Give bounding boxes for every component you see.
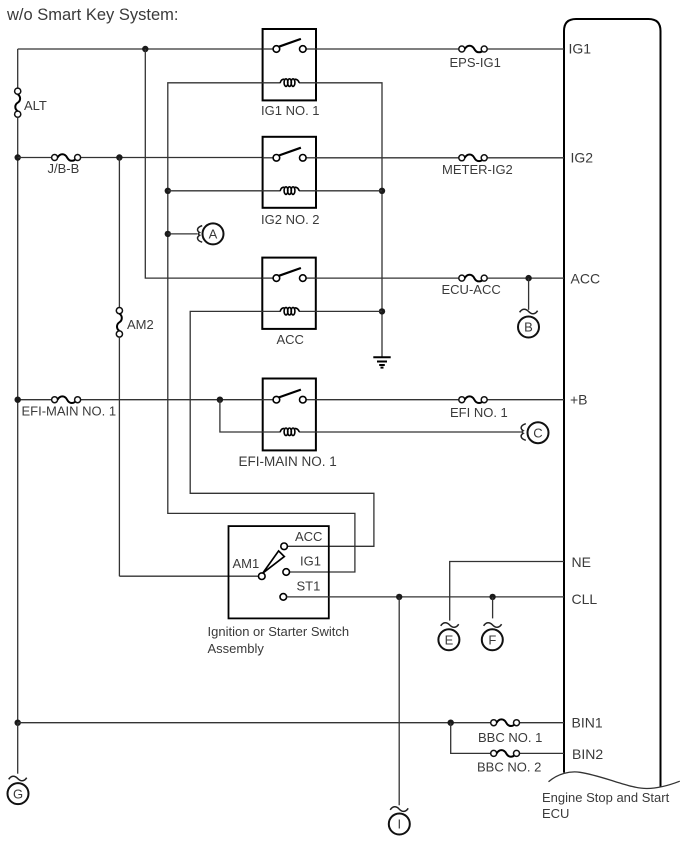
wire B stub: [528, 278, 530, 310]
svg-text:IG1: IG1: [300, 554, 321, 569]
fuse EFI-MAIN NO. 1: [52, 396, 81, 403]
svg-text:METER-IG2: METER-IG2: [442, 162, 513, 177]
connector E: [438, 623, 459, 651]
svg-text:EFI-MAIN NO. 1: EFI-MAIN NO. 1: [239, 454, 337, 469]
ground: [373, 357, 390, 367]
wire EFI coil branch: [220, 400, 263, 432]
fuse BBC NO. 2: [491, 750, 520, 757]
svg-text:BIN1: BIN1: [572, 714, 603, 730]
svg-text:F: F: [488, 633, 496, 648]
svg-text:Ignition or Starter Switch: Ignition or Starter Switch: [208, 624, 350, 639]
svg-text:C: C: [533, 425, 542, 440]
svg-text:IG1 NO. 1: IG1 NO. 1: [261, 103, 320, 118]
ignition switch assembly box: [229, 526, 329, 618]
wire I rail: [398, 597, 400, 805]
fuse METER-IG2: [459, 155, 487, 162]
wire CLL row from ST1: [287, 596, 564, 598]
svg-text:A: A: [209, 227, 218, 242]
wire left rail upper: [17, 49, 19, 88]
wire G stub: [17, 723, 19, 774]
node B branch: [525, 275, 531, 281]
svg-text:Engine Stop and Start: Engine Stop and Start: [542, 790, 670, 805]
wire J/B-B row: [18, 157, 52, 159]
svg-text:IG1: IG1: [569, 41, 592, 57]
connector G: [8, 776, 29, 804]
svg-text:ALT: ALT: [24, 98, 47, 113]
fuse AM2: [116, 308, 122, 338]
connector B: [518, 309, 539, 337]
svg-text:w/o Smart Key System:: w/o Smart Key System:: [6, 6, 178, 24]
fuse EPS-IG1: [459, 46, 487, 53]
node G row left: [15, 720, 21, 726]
svg-text:EPS-IG1: EPS-IG1: [450, 55, 501, 70]
node BIN2 branch: [448, 720, 454, 726]
wire IG2 coil right stub: [316, 190, 382, 192]
connector A: [198, 223, 224, 244]
wire IG2 row right with fuse METER-IG2: [316, 157, 459, 159]
node A branch: [165, 231, 171, 237]
wire ACC coil left rail: [190, 311, 374, 546]
svg-text:NE: NE: [572, 554, 591, 570]
wire +B row right with fuse EFI NO. 1: [316, 399, 459, 401]
svg-text:ECU: ECU: [542, 806, 569, 821]
node EFI coil branch: [217, 397, 223, 403]
connector I: [389, 807, 410, 835]
wire F stub: [492, 597, 494, 619]
wire BIN2 branch: [451, 723, 491, 754]
svg-text:ACC: ACC: [277, 332, 304, 347]
wire ACC feed rail: [145, 49, 262, 278]
wire ACC row right with fuse ECU-ACC: [316, 277, 459, 279]
node AM2 branch: [116, 154, 122, 160]
relay IG1 NO. 1: [263, 29, 316, 100]
svg-text:CLL: CLL: [572, 591, 598, 607]
wire A stub: [168, 233, 198, 235]
svg-text:G: G: [13, 786, 23, 801]
relay ACC: [262, 258, 316, 329]
svg-text:BBC NO. 1: BBC NO. 1: [478, 730, 542, 745]
wire AM2 rail upper: [118, 158, 120, 308]
wire EFI-MAIN row: [18, 399, 52, 401]
node ACC coil junction right: [379, 308, 385, 314]
svg-text:ST1: ST1: [297, 579, 321, 594]
wire top rail IG1 row left: [18, 48, 263, 50]
wire ACC coil right stub: [316, 310, 382, 312]
svg-text:BIN2: BIN2: [572, 746, 603, 762]
wire left rail mid: [17, 117, 19, 722]
svg-text:AM2: AM2: [127, 317, 154, 332]
svg-text:BBC NO. 2: BBC NO. 2: [477, 760, 541, 775]
fuse BBC NO. 1: [491, 719, 520, 726]
ECU box Engine Stop and Start ECU: [549, 19, 680, 789]
wire AM2 rail lower to AM1: [118, 337, 120, 576]
svg-text:IG2: IG2: [571, 150, 594, 166]
fusible link ALT: [15, 88, 21, 117]
svg-text:I: I: [397, 817, 401, 832]
wire IG1 row right with fuse EPS-IG1: [316, 48, 459, 50]
connector F: [482, 623, 503, 651]
connector C: [521, 422, 548, 443]
fuse ECU-ACC: [459, 275, 487, 282]
svg-text:EFI NO. 1: EFI NO. 1: [450, 405, 508, 420]
svg-text:AM1: AM1: [233, 556, 260, 571]
svg-text:IG2 NO. 2: IG2 NO. 2: [261, 212, 320, 227]
relay IG2 NO. 2: [263, 137, 316, 208]
wire EFI coil right to connector C: [316, 431, 521, 433]
wire IG2 coil left stub: [168, 190, 263, 192]
svg-text:EFI-MAIN NO. 1: EFI-MAIN NO. 1: [22, 404, 117, 419]
wire IG1 coil left rail: [168, 83, 355, 572]
node IG2 coil junction left: [165, 188, 171, 194]
node J/B-B left: [15, 154, 21, 160]
svg-text:J/B-B: J/B-B: [48, 161, 80, 176]
svg-text:ACC: ACC: [295, 529, 322, 544]
svg-text:ACC: ACC: [571, 271, 601, 287]
node F branch: [489, 594, 495, 600]
svg-text:+B: +B: [570, 392, 588, 408]
wire BIN1 row: [18, 722, 491, 724]
fuse J/B-B: [52, 154, 81, 161]
node IG2 coil junction right: [379, 188, 385, 194]
node I branch: [396, 594, 402, 600]
fuse EFI NO. 1: [459, 396, 487, 403]
wire IG1 coil right to ground rail: [316, 83, 382, 357]
svg-text:B: B: [524, 320, 533, 335]
wire NE row: [450, 562, 564, 621]
svg-text:ECU-ACC: ECU-ACC: [442, 282, 501, 297]
node EFI row left: [15, 397, 21, 403]
wire AM1 feed: [119, 575, 258, 577]
relay EFI-MAIN NO. 1: [263, 379, 316, 451]
node junction top rail: [142, 46, 148, 52]
svg-text:E: E: [445, 633, 454, 648]
svg-text:Assembly: Assembly: [208, 641, 265, 656]
